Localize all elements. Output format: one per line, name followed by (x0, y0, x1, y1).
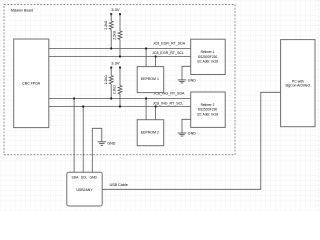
svg-text:USB2ANY: USB2ANY (76, 188, 93, 192)
EEPROM 2 (137, 120, 164, 146)
resistor R3 2.2k (ING SDA pullup) (104, 68, 113, 100)
svg-text:GND: GND (188, 132, 196, 136)
wire EEPROM1 SDA pin (145, 47, 147, 66)
board outline (Mclaren Board dashed container) (4, 5, 235, 155)
svg-text:JC8_ING_RT_SCL: JC8_ING_RT_SCL (153, 101, 184, 105)
wire JC8_EGR_RT_SCL (49, 56, 191, 58)
svg-text:Retimer 2: Retimer 2 (201, 103, 215, 107)
wire EEPROM1 SCL pin (155, 55, 157, 66)
wire retimer1 GND pin (182, 66, 191, 80)
ground symbol GND1 (178, 79, 196, 84)
ground symbol GND2 (178, 132, 196, 137)
svg-text:3.3V: 3.3V (111, 61, 120, 66)
net label JC8_ING_RT_SCL (153, 101, 184, 105)
power 3.3V rail 1 (110, 7, 121, 15)
svg-text:2.2kΩ: 2.2kΩ (113, 30, 117, 39)
resistor R2 2.2k (EGR SCL pullup) (113, 14, 122, 57)
svg-text:DS250DF230: DS250DF230 (198, 55, 218, 59)
power 3.3V rail 2 (110, 61, 121, 69)
svg-text:I2C Addr: 0x18: I2C Addr: 0x18 (197, 112, 218, 116)
resistor R4 2.2k (ING SCL pullup) (113, 68, 122, 108)
svg-text:SigCon Architect: SigCon Architect (285, 84, 310, 88)
svg-text:SCL: SCL (81, 175, 88, 179)
net label USB Cable (110, 183, 128, 187)
wire JC8_ING_RT_SDA (49, 98, 191, 100)
net label JC8_ING_RT_SDA (154, 92, 185, 96)
svg-text:DS250DF230: DS250DF230 (198, 108, 218, 112)
svg-text:2.2kΩ: 2.2kΩ (104, 20, 108, 29)
USB2ANY adapter box (67, 172, 102, 206)
ground symbol GND3 (98, 141, 116, 145)
svg-text:USB Cable: USB Cable (110, 183, 128, 187)
wire JC8_EGR_RT_SDA (49, 48, 191, 50)
PC box (PC with SigCon Architect) (281, 40, 315, 127)
svg-text:JC8_EGR_RT_SCL: JC8_EGR_RT_SCL (152, 51, 184, 55)
wire EEPROM2 SCL pin (155, 105, 157, 119)
svg-text:EEPROM 2: EEPROM 2 (141, 130, 159, 134)
svg-text:I2C Addr: 0x18: I2C Addr: 0x18 (197, 60, 218, 64)
svg-text:3.3V: 3.3V (111, 7, 120, 12)
wire USB cable (102, 92, 280, 189)
svg-text:GND: GND (188, 79, 196, 83)
svg-text:EEPROM 1: EEPROM 1 (141, 77, 159, 81)
FPGA U1 (CBC FPGA) (14, 39, 49, 128)
wire USB2ANY SCL pin (82, 105, 84, 172)
svg-text:SDA: SDA (72, 175, 80, 179)
wire JC8_ING_RT_SCL (49, 106, 191, 108)
wire retimer2 GND pin (182, 119, 191, 133)
svg-text:Retimer 1: Retimer 1 (201, 50, 215, 54)
retimer U3 (Retimer 2 DS250DF230) (191, 92, 226, 127)
wire EEPROM2 SDA pin (145, 97, 147, 119)
resistor R1 2.2k (EGR SDA pullup) (104, 14, 113, 49)
svg-text:2.2kΩ: 2.2kΩ (104, 75, 108, 84)
svg-text:CBC FPGA: CBC FPGA (22, 81, 41, 85)
net label JC8_EGR_RT_SCL (152, 51, 184, 55)
board title label (11, 8, 33, 12)
svg-text:JC8_EGR_RT_SDA: JC8_EGR_RT_SDA (153, 41, 186, 45)
net label JC8_EGR_RT_SDA (153, 41, 186, 45)
EEPROM 1 (137, 67, 164, 93)
svg-text:GND: GND (90, 175, 98, 179)
svg-text:GND: GND (107, 141, 115, 145)
svg-text:Mclaren Board: Mclaren Board (11, 8, 33, 12)
wire USB2ANY SDA pin (73, 97, 75, 172)
retimer U2 (Retimer 1 DS250DF230) (191, 39, 226, 74)
page boundary dashed line (317, 0, 319, 211)
svg-text:2.2kΩ: 2.2kΩ (113, 85, 117, 94)
wire USB2ANY GND pin (92, 128, 102, 172)
